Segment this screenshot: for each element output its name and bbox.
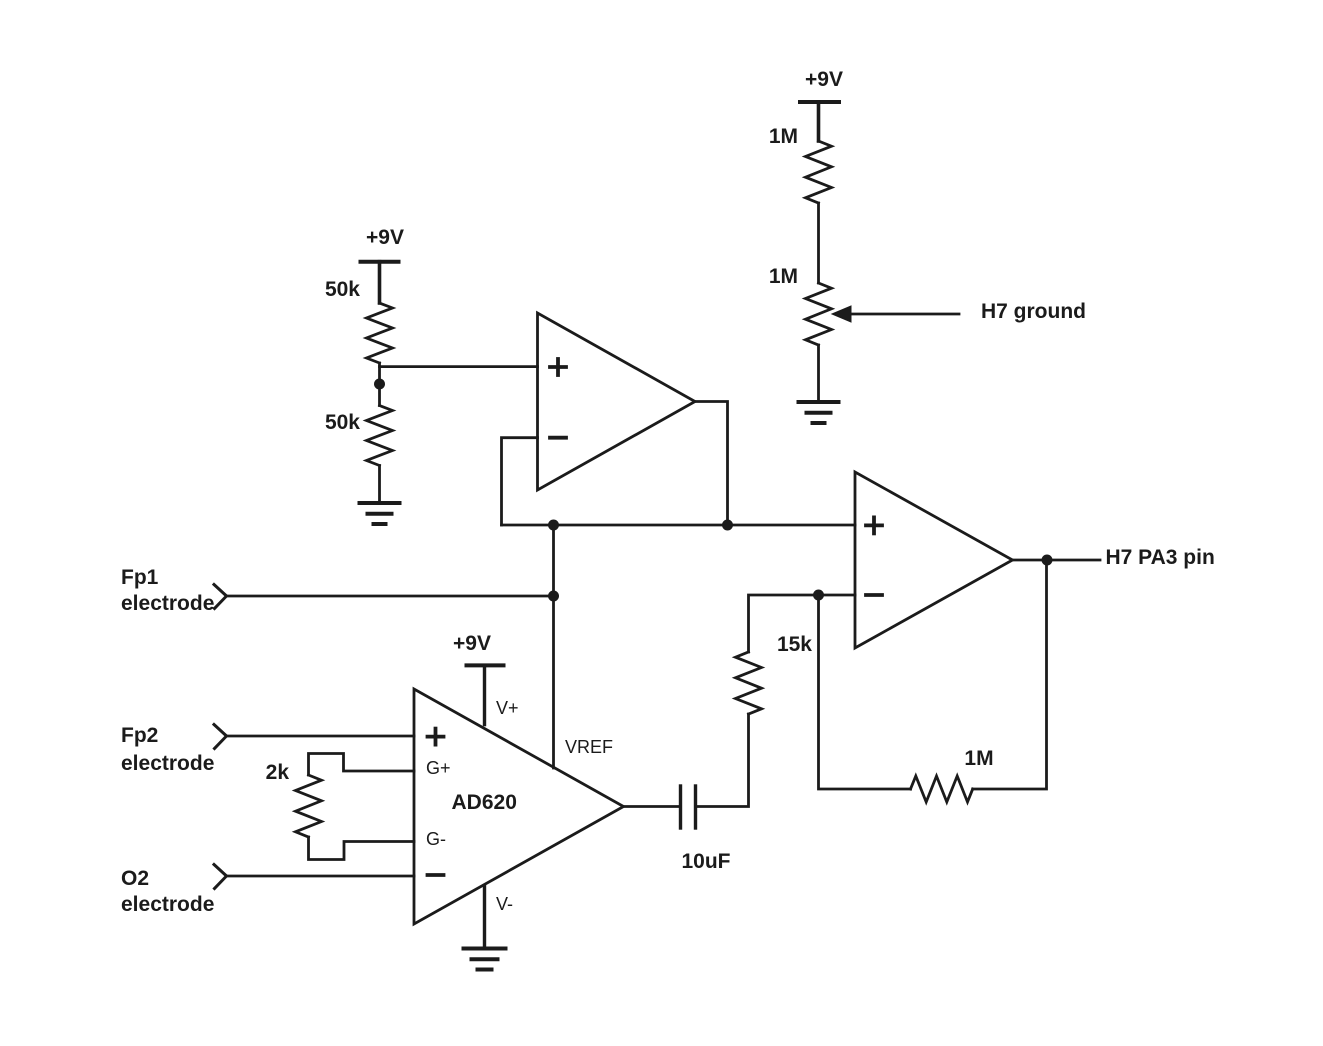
wire U1 inverting input feedback [502,438,538,525]
op-amp U3 - marker [866,593,882,597]
resistor R 1M (lower, right divider) [806,283,832,345]
op-amp U1 + marker [550,359,566,375]
label O2 electrode [121,867,214,916]
wire Fp2 to AD620 + input [227,735,415,738]
wire AD620 output to cap [624,805,681,808]
svg-text:+9V: +9V [366,226,404,249]
svg-text:VREF: VREF [565,737,613,757]
svg-text:10uF: 10uF [682,850,731,873]
node dot VREF rail left [548,520,559,531]
svg-text:H7 PA3 pin: H7 PA3 pin [1106,546,1215,569]
svg-text:electrode: electrode [121,592,214,615]
supply +9V (right divider) [800,102,839,141]
wire O2 to AD620 - input [227,875,415,878]
node dot U1 output on rail [722,520,733,531]
resistor R 50k (upper) [367,303,393,363]
svg-text:1M: 1M [964,747,993,770]
svg-text:H7 ground: H7 ground [981,300,1086,323]
op-amp U3 + marker [866,517,882,533]
svg-text:G+: G+ [426,758,451,778]
wire feedback down from inverting node [819,595,911,789]
op-amp U2 (AD620) [414,689,624,924]
wire U1 output [695,402,728,526]
wire gain resistor to G- pin [309,837,415,860]
svg-text:50k: 50k [325,411,360,434]
wire 15k to U3 inverting input [749,595,856,652]
node dot U3 output [1042,555,1053,566]
wire G+ pin to gain resistor [309,754,415,776]
resistor R 50k (lower) [367,406,393,466]
svg-text:V-: V- [496,894,513,914]
wire between 1M resistors [817,203,820,283]
svg-text:1M: 1M [769,125,798,148]
svg-text:+9V: +9V [805,68,843,91]
svg-text:electrode: electrode [121,893,214,916]
svg-text:AD620: AD620 [452,791,517,814]
wire Fp1 to VREF node [227,595,554,598]
resistor R 1M (upper, right divider) [806,141,832,203]
wire lower 1M to ground [817,345,820,402]
svg-text:+9V: +9V [453,632,491,655]
wire buffer output rail [502,524,856,527]
svg-text:Fp1: Fp1 [121,566,159,589]
op-amp U3 (output stage) [855,472,1013,648]
connector O2 [214,865,227,889]
op-amp U1 - marker [550,436,566,440]
AD620 - marker [428,873,444,877]
supply +9V (left divider) [361,262,399,303]
svg-text:V+: V+ [496,698,519,718]
AD620 + marker [428,729,444,745]
ground (left divider) [360,503,400,524]
connector Fp1 [214,585,227,609]
svg-text:15k: 15k [777,633,812,656]
label Fp2 electrode [121,724,214,775]
wire feedback to output node [973,560,1047,789]
ground (AD620 V-) [464,949,506,970]
resistor R 2k (gain) [296,775,322,837]
wiper arrow into lower 1M [832,306,959,322]
wire to op-amp U1 + input [380,365,538,368]
node dot Fp1 junction [548,591,559,602]
node dot divider midpoint [374,379,385,390]
label Fp1 electrode [121,566,214,615]
wire lower 50k to ground [378,466,381,504]
ground (right divider) [799,402,839,423]
svg-text:1M: 1M [769,265,798,288]
svg-text:G-: G- [426,829,446,849]
wire VREF vertical [552,525,555,768]
svg-text:2k: 2k [266,761,290,784]
resistor R 15k [736,652,762,714]
svg-text:50k: 50k [325,278,360,301]
wire divider midpoint [378,363,381,406]
connector Fp2 [214,725,227,749]
wire V- pin to ground [483,886,486,947]
svg-text:O2: O2 [121,867,149,890]
svg-text:Fp2: Fp2 [121,724,158,747]
node dot U3 inverting input [813,590,824,601]
supply +9V (AD620 V+) [467,665,504,724]
capacitor C 10uF [681,786,696,828]
wire cap to 15k [696,714,749,807]
op-amp U1 (buffer) [538,313,696,490]
wire U3 output [1013,559,1101,562]
svg-text:electrode: electrode [121,752,214,775]
resistor R 1M (feedback) [911,776,973,802]
